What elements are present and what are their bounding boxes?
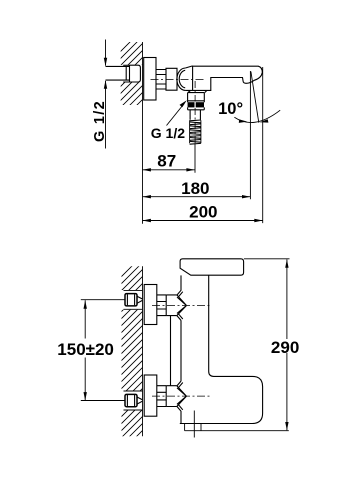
extension line lower connection	[81, 400, 125, 402]
upper centerline	[152, 304, 210, 306]
lever stem edge	[192, 66, 194, 91]
lower escutcheon	[144, 375, 157, 416]
150 +/- 20 dimension line	[84, 300, 86, 400]
hose smooth section	[190, 110, 200, 120]
290 dimension line	[286, 259, 288, 430]
svg-text:180: 180	[181, 179, 209, 198]
lever ball arcs	[177, 68, 186, 90]
supply pipe in wall	[106, 66, 130, 80]
extension line upper connection	[81, 299, 125, 301]
shaft between unions (outer)	[170, 316, 172, 386]
arc arrowhead left	[239, 119, 248, 123]
svg-text:G 1/2: G 1/2	[151, 125, 185, 141]
centerline (top view)	[151, 79, 206, 81]
svg-text:200: 200	[189, 203, 217, 222]
escutcheon flange (top view)	[144, 58, 156, 101]
handle (bottom view)	[180, 259, 244, 275]
lower union nut	[166, 386, 177, 407]
wall opening edge lines at nuts (bottom view)	[124, 290, 143, 410]
black band on hose nut	[188, 102, 195, 107]
upper threaded section	[157, 295, 166, 316]
lever back edge	[185, 66, 192, 68]
upper union nut	[166, 295, 177, 316]
upper escutcheon	[144, 285, 157, 325]
wall hatching (bottom view)	[112, 252, 146, 461]
10 degree arc	[234, 110, 280, 122]
lower nut cone to wall	[137, 397, 142, 404]
10 degree slanted line	[251, 72, 259, 123]
spout / lever silhouette	[185, 66, 262, 90]
union nut (top view)	[166, 68, 177, 90]
lower wall nut	[125, 394, 137, 406]
base plate	[185, 424, 289, 431]
svg-text:290: 290	[271, 338, 299, 357]
svg-text:10°: 10°	[218, 100, 243, 118]
200 dimension line	[143, 220, 263, 222]
hose tail / extension line for 87	[194, 143, 196, 173]
svg-text:150±20: 150±20	[57, 340, 114, 359]
180 dimension line	[143, 196, 251, 198]
hex fitting on pipe	[126, 65, 140, 82]
wall opening edge lines at pipe (top view)	[123, 65, 129, 82]
hose nut lower lip	[188, 107, 205, 109]
hose connector block	[188, 93, 205, 103]
arrow to pipe bottom	[104, 80, 107, 88]
G 1/2 vertical dimension line (pipe)	[105, 40, 107, 149]
290 dimension: top extension line	[244, 258, 290, 260]
upper nut cone to wall	[137, 296, 142, 303]
svg-text:G 1/2: G 1/2	[92, 100, 108, 142]
leader line for hose G 1/2	[167, 104, 185, 126]
lower threaded section	[157, 386, 166, 407]
threaded nipple	[156, 70, 166, 90]
right extension line (180 / 10deg reference)	[249, 71, 251, 199]
wall hatching (top view)	[110, 27, 145, 132]
upper wall nut	[125, 294, 137, 306]
wall face (bottom view)	[142, 266, 144, 436]
hose ribbed section	[190, 120, 201, 144]
arc arrowhead right	[260, 119, 269, 122]
body left edge	[180, 275, 182, 423]
87 dimension line	[143, 169, 195, 171]
wall face / left extension line	[142, 42, 144, 224]
arrow to pipe top	[104, 58, 107, 66]
body right edge and spout block	[180, 275, 263, 423]
lower centerline	[152, 395, 210, 397]
shower hose outlet mark	[193, 411, 195, 438]
spout underside to hose connector	[188, 90, 207, 92]
svg-text:87: 87	[157, 152, 176, 171]
hose vertical centerline	[194, 81, 196, 143]
right extension line (200)	[262, 67, 264, 223]
